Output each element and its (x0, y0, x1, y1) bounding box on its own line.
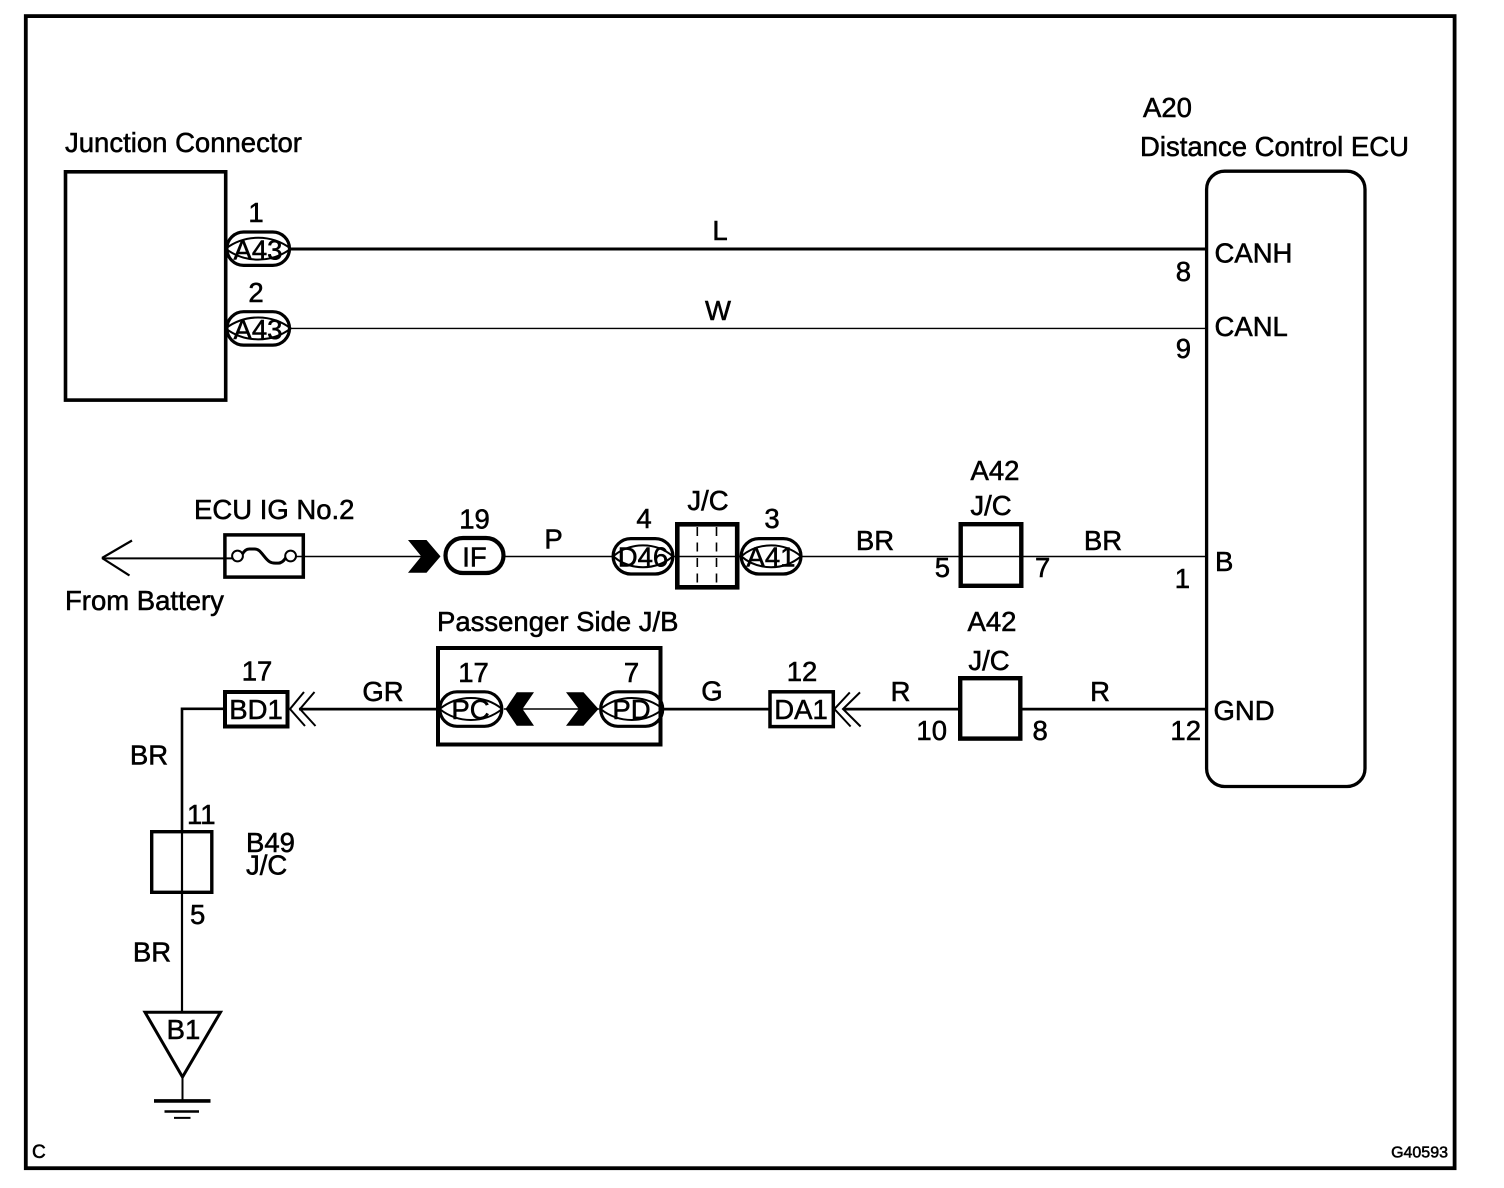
svg-text:10: 10 (916, 715, 947, 746)
connector D46 (613, 539, 673, 574)
svg-text:9: 9 (1176, 333, 1191, 364)
svg-text:BD1: BD1 (229, 694, 283, 725)
from battery arrow (102, 541, 132, 576)
svg-text:G: G (701, 676, 722, 707)
svg-text:D46: D46 (618, 542, 668, 573)
connector A43 pin2 (226, 312, 291, 345)
fuse ECU IG No.2 (225, 535, 303, 577)
svg-text:B1: B1 (167, 1014, 201, 1045)
svg-text:R: R (891, 676, 911, 707)
svg-text:P: P (544, 524, 562, 555)
svg-text:J/C: J/C (687, 485, 728, 516)
Passenger Side J/B box (438, 648, 661, 745)
svg-text:DA1: DA1 (774, 694, 828, 725)
connector DA1 (770, 692, 833, 727)
svg-text:IF: IF (462, 541, 486, 572)
svg-text:8: 8 (1033, 715, 1048, 746)
svg-text:W: W (705, 295, 731, 326)
svg-text:CANL: CANL (1215, 311, 1288, 342)
connector IF (446, 538, 504, 573)
connector BD1 (225, 692, 288, 727)
svg-text:PC: PC (451, 694, 489, 725)
svg-text:BR: BR (1084, 525, 1122, 556)
connector PC (440, 692, 502, 727)
svg-text:From Battery: From Battery (65, 585, 224, 616)
svg-text:3: 3 (764, 503, 779, 534)
svg-text:5: 5 (935, 552, 950, 583)
svg-text:12: 12 (1170, 715, 1201, 746)
connector PD (601, 692, 663, 727)
connector A43 pin1 (226, 232, 291, 265)
wire fuse to arrow (296, 556, 422, 558)
svg-text:A42: A42 (971, 455, 1020, 486)
ground triangle B1 (145, 1012, 221, 1077)
svg-text:BR: BR (133, 937, 171, 968)
svg-text:8: 8 (1176, 256, 1191, 287)
svg-text:A43: A43 (234, 314, 283, 345)
wire BR to A42 (801, 556, 1206, 558)
svg-text:L: L (712, 215, 727, 246)
arrow right at PD (566, 692, 599, 725)
ground stem (182, 1077, 184, 1100)
J/C dashed box (674, 524, 740, 587)
ECU U-A20 box (1207, 171, 1365, 786)
svg-text:Junction Connector: Junction Connector (65, 127, 302, 158)
svg-text:GR: GR (362, 676, 403, 707)
svg-text:A43: A43 (234, 234, 283, 265)
svg-text:B: B (1215, 546, 1233, 577)
svg-text:7: 7 (624, 657, 639, 688)
wire L CANH (291, 248, 1206, 251)
junction A42 box (B row) (961, 524, 1022, 586)
svg-text:1: 1 (248, 197, 263, 228)
wire G (663, 708, 770, 711)
junction connector box (66, 172, 226, 400)
svg-text:ECU IG No.2: ECU IG No.2 (194, 494, 354, 525)
svg-text:Passenger Side J/B: Passenger Side J/B (437, 606, 679, 637)
svg-text:R: R (1090, 676, 1110, 707)
connector A41 (741, 539, 801, 574)
svg-text:A42: A42 (968, 606, 1017, 637)
wire P (506, 556, 614, 558)
svg-text:12: 12 (787, 656, 818, 687)
svg-text:BR: BR (130, 740, 168, 771)
svg-text:4: 4 (636, 503, 651, 534)
double chevron at BD1 (290, 692, 316, 726)
svg-text:BR: BR (856, 525, 894, 556)
svg-text:7: 7 (1035, 552, 1050, 583)
ground bars (154, 1099, 211, 1103)
svg-text:J/C: J/C (968, 645, 1009, 676)
svg-text:PD: PD (612, 694, 650, 725)
svg-text:CANH: CANH (1215, 238, 1293, 269)
svg-text:C: C (32, 1142, 46, 1163)
svg-text:19: 19 (459, 504, 490, 535)
svg-text:GND: GND (1214, 695, 1275, 726)
svg-text:J/C: J/C (246, 850, 287, 881)
wire GR (299, 708, 438, 711)
double chevron at DA1 (834, 692, 860, 726)
svg-text:G40593: G40593 (1391, 1145, 1448, 1162)
wire R to ECU (1020, 708, 1206, 711)
wire R (843, 708, 958, 711)
svg-text:2: 2 (248, 277, 263, 308)
svg-text:1: 1 (1175, 563, 1190, 594)
svg-text:11: 11 (187, 799, 216, 830)
svg-text:J/C: J/C (970, 490, 1011, 521)
junction B49 box (152, 832, 212, 893)
svg-text:Distance Control ECU: Distance Control ECU (1140, 131, 1409, 162)
GND row: corner wire to BD1 (182, 709, 224, 830)
svg-text:17: 17 (458, 657, 489, 688)
wire battery to fuse (102, 557, 233, 559)
svg-text:5: 5 (190, 899, 205, 930)
svg-text:A20: A20 (1143, 92, 1192, 123)
wire W CANL (291, 327, 1206, 329)
arrow left at PC (506, 692, 535, 725)
wire between PC and PD (504, 708, 599, 710)
arrow into IF (408, 540, 441, 573)
wire down to B49 (181, 830, 183, 1013)
junction A42 box (GND row) (960, 678, 1020, 738)
svg-text:17: 17 (242, 656, 273, 687)
svg-text:A41: A41 (747, 542, 796, 573)
